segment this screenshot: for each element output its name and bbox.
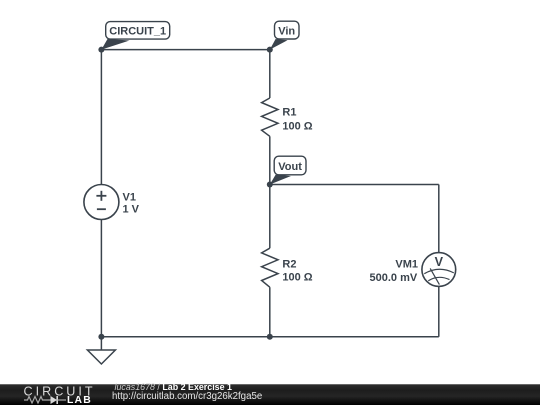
wire bottom horizontal ground net [101,336,438,338]
net label Vout [270,156,306,184]
svg-text:CIRCUIT_1: CIRCUIT_1 [109,26,166,38]
wire Vin vertical (top wire to R1 pin 1) [269,50,271,98]
svg-text:R1: R1 [282,106,296,118]
svg-text:Vin: Vin [278,25,295,37]
net label CIRCUIT_1 [101,22,169,50]
wire R2 pin 2 to bottom net [269,287,271,337]
wire R1 pin 2 to Vout node [269,136,271,184]
wire Vout node to R2 pin 1 [269,185,271,249]
svg-text:100 Ω: 100 Ω [282,271,312,283]
wire Vout horizontal (Vout node to voltmeter branch) [270,184,439,186]
svg-text:VM1: VM1 [395,258,418,270]
wire left vertical upper (node A to V1 top pin) [100,50,102,185]
svg-text:500.0 mV: 500.0 mV [369,272,417,284]
node junction dot ground middle [267,334,273,340]
wire voltmeter branch vertical upper [438,185,440,253]
svg-text:Vout: Vout [278,161,302,173]
wire left vertical lower (V1 bottom pin to ground net) [100,220,102,337]
resistor R1 100 Ohm [262,98,313,136]
svg-text:V: V [435,255,444,269]
voltmeter VM1 500.0 mV [369,253,455,287]
ground [87,337,115,364]
node junction dot ground left [98,334,104,340]
svg-text:V1: V1 [123,191,136,203]
node junction dot CIRCUIT_1 [98,47,104,53]
voltage source V1 1 V [84,185,140,220]
node junction dot Vout [267,182,273,188]
resistor R2 100 Ohm [262,248,313,287]
svg-text:1 V: 1 V [123,204,140,216]
svg-text:R2: R2 [282,258,296,270]
net label Vin [270,21,299,49]
wire top horizontal net CIRCUIT_1 [101,49,269,51]
node junction dot Vin [267,47,273,53]
wire voltmeter branch vertical lower [438,286,440,336]
svg-text:100 Ω: 100 Ω [282,120,312,132]
